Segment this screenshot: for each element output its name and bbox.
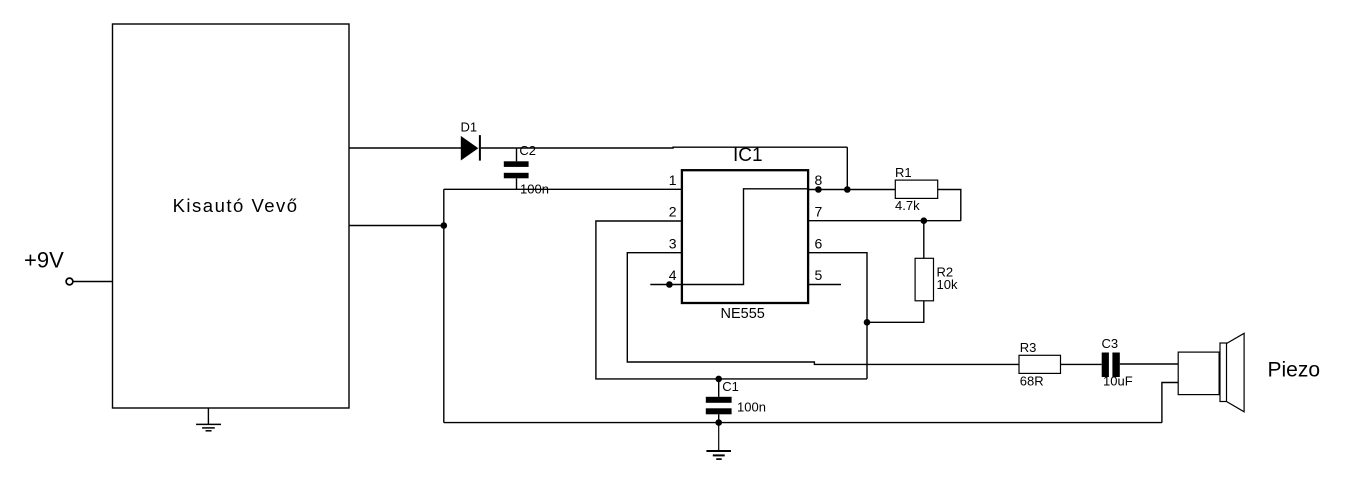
svg-text:R1: R1	[895, 165, 912, 180]
svg-text:100n: 100n	[520, 182, 549, 197]
svg-text:Piezo: Piezo	[1268, 359, 1321, 382]
svg-text:NE555: NE555	[721, 306, 765, 322]
terminal +9V	[66, 278, 73, 285]
diode D1	[461, 135, 480, 161]
ground (under receiver box)	[196, 408, 221, 431]
svg-text:68R: 68R	[1020, 373, 1044, 388]
svg-text:100n: 100n	[737, 400, 766, 415]
wire pin 1 net horizontal	[444, 188, 682, 190]
capacitor C1	[706, 379, 732, 423]
wire left vertical bus x=443.8	[443, 189, 445, 422]
node junction at left bus	[441, 222, 448, 229]
svg-text:6: 6	[815, 235, 823, 251]
svg-text:10k: 10k	[937, 277, 958, 292]
wire piezo return to ground run	[1162, 383, 1178, 423]
svg-text:4.7k: 4.7k	[895, 198, 920, 213]
wire R3 to C3	[1061, 363, 1102, 365]
svg-text:10uF: 10uF	[1103, 374, 1133, 389]
node pin7/R2 junction	[921, 217, 928, 224]
speaker Piezo symbol	[1178, 333, 1244, 412]
resistor R2	[867, 221, 934, 323]
op-amp IC1 NE555 body	[682, 170, 808, 303]
node pin6/R2 junction	[864, 319, 871, 326]
wire +9V terminal to box	[73, 281, 112, 283]
wire ground run bottom	[444, 422, 1162, 424]
wire pin 2 net	[596, 221, 867, 379]
wire pin 7 net	[808, 220, 961, 222]
svg-text:C3: C3	[1102, 336, 1119, 351]
wire D1 cathode to corner above pin 8	[481, 146, 848, 149]
capacitor C2	[504, 148, 529, 189]
wire box to left bus (second output)	[349, 225, 444, 227]
block Kisautó Vevő receiver box	[113, 24, 350, 408]
wire pin 6 net	[808, 253, 867, 379]
resistor R1	[895, 180, 937, 198]
wire box to D1 anode (top supply net)	[349, 147, 461, 149]
ground (under C1)	[706, 423, 731, 460]
svg-text:5: 5	[815, 267, 823, 283]
node C1 top junction	[715, 376, 722, 383]
svg-text:2: 2	[669, 204, 677, 220]
wire pin 3 output net	[627, 253, 1019, 365]
wire R1 right to pin 7 net	[938, 190, 961, 221]
node C1 bottom junction	[715, 419, 722, 426]
svg-text:7: 7	[815, 204, 823, 220]
svg-text:IC1: IC1	[733, 145, 763, 166]
svg-text:4: 4	[669, 267, 677, 283]
svg-text:+9V: +9V	[24, 248, 64, 273]
svg-text:8: 8	[815, 172, 823, 188]
node supply drop dot	[844, 186, 851, 193]
wire pin 5 stub	[808, 284, 841, 286]
svg-text:3: 3	[669, 235, 677, 251]
node pin 8 dot	[815, 186, 822, 193]
svg-text:1: 1	[669, 172, 677, 188]
wire C3 to piezo	[1120, 363, 1178, 365]
svg-text:Kisautó Vevő: Kisautó Vevő	[173, 195, 299, 216]
svg-text:C2: C2	[519, 143, 536, 158]
svg-text:R3: R3	[1020, 340, 1037, 355]
node pin 4 junction dot	[666, 281, 673, 288]
wire pin 8 to R1	[808, 189, 895, 191]
resistor R3	[1019, 355, 1061, 373]
wire IC1 internal link pin4 to pin8	[650, 189, 807, 285]
wire vertical drop to pin 8 node	[846, 147, 848, 189]
capacitor C3	[1102, 353, 1120, 378]
svg-text:D1: D1	[461, 120, 478, 135]
svg-text:C1: C1	[722, 379, 739, 394]
